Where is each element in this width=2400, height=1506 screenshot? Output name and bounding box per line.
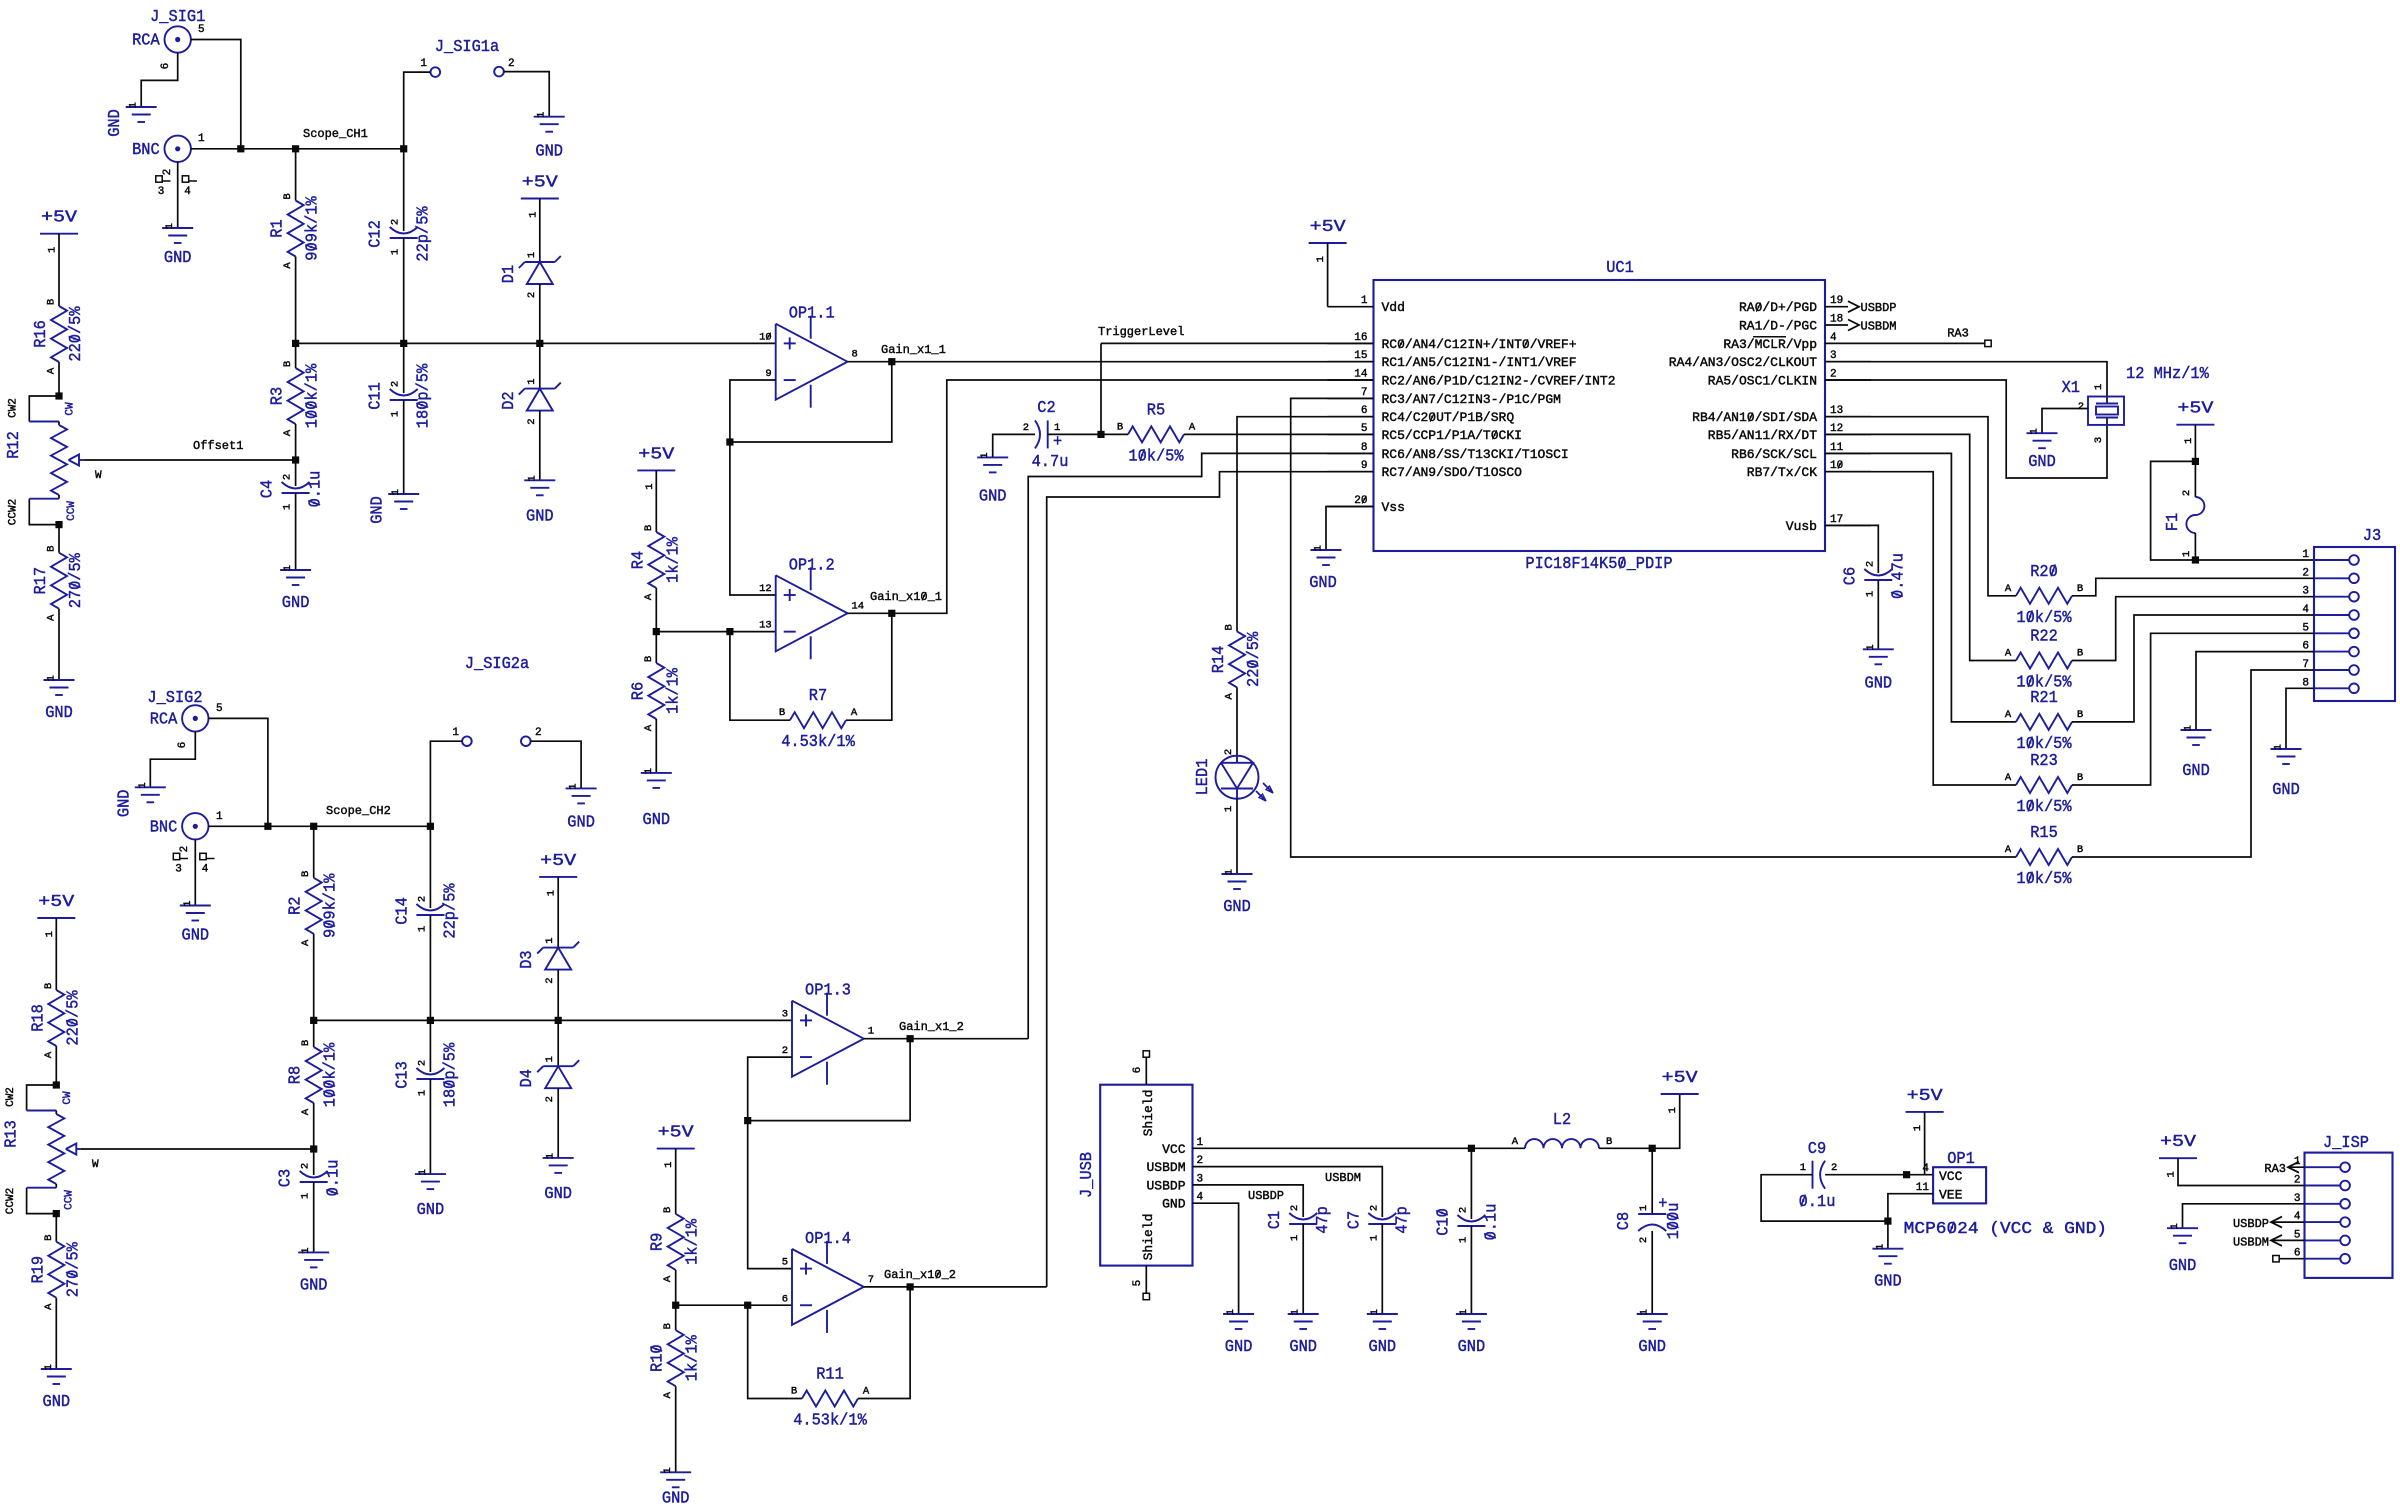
svg-text:R5: R5 (1147, 401, 1165, 420)
svg-text:A: A (662, 1275, 674, 1282)
wire J_SIG1a pin2 to GND (504, 72, 549, 117)
wire RB6 to R21 (1825, 453, 2016, 722)
svg-text:RC0/AN4/C12IN+/INT0/VREF+: RC0/AN4/C12IN+/INT0/VREF+ (1382, 337, 1577, 352)
junction node R4/R6 (653, 628, 660, 635)
wire C13 bottom stub (429, 1079, 431, 1174)
wire OP1.1 output (848, 361, 892, 363)
wire BNC1 pin1 (191, 148, 241, 150)
svg-text:1: 1 (1458, 1309, 1470, 1315)
ground LED1 (1222, 869, 1253, 917)
svg-text:CW2: CW2 (5, 1087, 17, 1107)
svg-text:B: B (282, 361, 294, 367)
svg-text:+: + (1053, 433, 1062, 452)
ground RCA2 (115, 782, 166, 817)
svg-text:CW: CW (65, 402, 77, 416)
pin 5 label (216, 703, 223, 715)
svg-text:C4: C4 (259, 480, 278, 498)
svg-text:5: 5 (198, 24, 205, 36)
svg-text:+5V: +5V (1662, 1069, 1699, 1088)
junction node VCC OP1 (1903, 1171, 1910, 1178)
wire CH1 divider node row (296, 342, 776, 344)
svg-text:R1: R1 (269, 219, 288, 237)
svg-text:1: 1 (1912, 1125, 1924, 1131)
svg-text:A: A (282, 262, 294, 269)
junction node C10 (1468, 1145, 1475, 1152)
svg-text:1: 1 (2029, 428, 2041, 434)
+5V supply R16 (40, 209, 78, 253)
svg-text:1k/1%: 1k/1% (684, 1218, 703, 1265)
svg-text:Offset1: Offset1 (193, 439, 243, 453)
svg-text:2: 2 (1864, 561, 1876, 567)
wire R1 top stub (295, 149, 297, 201)
svg-text:+5V: +5V (658, 1124, 695, 1143)
svg-text:GND: GND (979, 487, 1007, 506)
wire C10 top (1470, 1148, 1472, 1219)
wire C4 bottom stub (295, 493, 297, 570)
svg-text:1: 1 (526, 475, 538, 481)
svg-text:GND: GND (182, 927, 210, 946)
junction node CCW ch2 (53, 1210, 60, 1217)
wire OP1.1 feedback (730, 362, 892, 442)
potentiometer R13 (2, 1111, 99, 1188)
wire F1 bypass (2151, 461, 2314, 560)
svg-text:2: 2 (1023, 422, 1029, 434)
junction node C14/C13 (427, 1017, 434, 1024)
resistor R3 (269, 361, 323, 436)
capacitor C11 (367, 363, 434, 428)
svg-text:A: A (643, 724, 655, 731)
junction Scope_CH1 at J_SIG1a (400, 145, 407, 152)
svg-text:2: 2 (282, 474, 294, 480)
wire R19 bottom stub (55, 1298, 57, 1369)
svg-text:A: A (1224, 693, 1236, 700)
svg-text:2: 2 (416, 896, 428, 902)
junction node CW ch2 (53, 1081, 60, 1088)
junction node C12/C11 (400, 340, 407, 347)
wire RB7 to R23 (1825, 472, 2016, 785)
inductor L2 (1471, 1111, 1612, 1148)
svg-text:1: 1 (544, 937, 556, 943)
wire C12 bottom stub (403, 238, 405, 343)
net label USBDM (1325, 1171, 1361, 1185)
label J_SIG2 (147, 689, 202, 708)
svg-text:R14: R14 (1210, 646, 1229, 674)
svg-text:2: 2 (544, 1096, 556, 1102)
svg-text:22p/5%: 22p/5% (415, 206, 434, 262)
wire LED1 to GND (1236, 799, 1238, 874)
svg-text:B: B (1224, 624, 1236, 630)
svg-text:R22: R22 (2030, 628, 2058, 647)
svg-text:1: 1 (1197, 1137, 1204, 1149)
wire VCC to L2 (1239, 1147, 1472, 1149)
svg-text:270/5%: 270/5% (64, 1241, 83, 1297)
ground OP1 (1872, 1244, 1903, 1292)
wire R9 top stub (675, 1149, 677, 1214)
pin 2 label (535, 727, 542, 739)
svg-text:11: 11 (1830, 442, 1844, 454)
BNC1 pin 4 stub (182, 176, 197, 198)
capacitor C2 (1023, 399, 1069, 472)
resistor R6 (629, 656, 683, 731)
svg-text:CW2: CW2 (8, 398, 20, 418)
wire RCA1 pin6 to GND (141, 53, 178, 107)
svg-text:11: 11 (1916, 1182, 1930, 1194)
wire RC4 to R14 (1237, 417, 1374, 632)
jumper CW2 box ch2 (5, 1085, 74, 1111)
svg-text:1: 1 (1874, 1244, 1886, 1250)
wire Offset1 net (83, 459, 295, 461)
op-amp OP1.4 (782, 1230, 874, 1333)
wire R3 top stub (295, 343, 297, 368)
wire OP1.3 feedback (748, 1039, 910, 1121)
svg-text:Gain_x1_2: Gain_x1_2 (899, 1020, 964, 1034)
svg-text:B: B (791, 1386, 797, 1398)
svg-text:W: W (92, 1159, 99, 1171)
wire R18 top stub (55, 918, 57, 990)
svg-text:2: 2 (526, 292, 538, 298)
svg-text:1: 1 (2273, 744, 2285, 750)
junction node F1 top (2192, 458, 2199, 465)
wire D2 top stub (539, 343, 541, 388)
wire R3 bottom stub (295, 424, 297, 460)
svg-text:RA1/D-/PGC: RA1/D-/PGC (1739, 319, 1817, 334)
junction node Offset1 (292, 456, 299, 463)
wire R1 bottom stub (295, 257, 297, 344)
svg-text:4: 4 (1922, 1163, 1929, 1175)
capacitor C8 (1615, 1195, 1684, 1243)
svg-text:RA3: RA3 (1947, 327, 1969, 341)
wire C11 top stub (403, 343, 405, 393)
svg-text:4: 4 (202, 864, 209, 876)
svg-text:GND: GND (1225, 1338, 1253, 1357)
svg-text:12: 12 (1830, 423, 1843, 435)
wire J_ISP pin3 GND (2183, 1204, 2305, 1228)
svg-text:J_SIG2a: J_SIG2a (465, 655, 529, 674)
svg-text:GND: GND (1289, 1338, 1317, 1357)
svg-text:GND: GND (2272, 781, 2300, 800)
svg-text:4.7u: 4.7u (1032, 453, 1069, 472)
wire D1 bottom stub (539, 284, 541, 343)
svg-text:A: A (300, 1108, 312, 1115)
svg-text:J_SIG1a: J_SIG1a (435, 38, 499, 57)
svg-text:C14: C14 (393, 897, 412, 925)
junction node OP1.1 fb (726, 438, 733, 445)
svg-text:4: 4 (1197, 1192, 1204, 1204)
junction node VEE GND (1884, 1218, 1891, 1225)
wire TriggerLevel down (1100, 343, 1102, 434)
svg-text:2: 2 (162, 169, 174, 176)
svg-text:RB5/AN11/RX/DT: RB5/AN11/RX/DT (1708, 428, 1817, 443)
wire D4 bottom stub (557, 1088, 559, 1158)
svg-text:OP1: OP1 (1947, 1150, 1975, 1169)
svg-text:1: 1 (390, 411, 402, 417)
resistor R16 (32, 299, 86, 374)
wire C2 pin1 stub (1048, 433, 1101, 435)
svg-text:1: 1 (1315, 256, 1327, 262)
junction node TriggerLevel (1097, 431, 1104, 438)
label MCP6024 (1904, 1220, 2107, 1239)
net label Gain_x10_1 (870, 590, 942, 604)
svg-text:CCW2: CCW2 (5, 1188, 17, 1214)
svg-text:1: 1 (526, 378, 538, 384)
connector J_SIG1a pin2 (494, 67, 504, 77)
svg-text:R8: R8 (287, 1066, 306, 1084)
svg-text:2: 2 (535, 727, 542, 739)
svg-text:5: 5 (1361, 423, 1368, 435)
junction node D1/D2 (536, 340, 543, 347)
svg-text:14: 14 (1354, 369, 1368, 381)
svg-text:R20: R20 (2030, 563, 2058, 582)
svg-text:R16: R16 (32, 320, 51, 348)
svg-text:CCW: CCW (63, 1190, 75, 1210)
wire J3 pin6 to GND (2196, 652, 2314, 730)
ground D4 (543, 1153, 574, 1204)
+5V supply D3 (539, 852, 577, 896)
svg-text:1: 1 (1800, 1162, 1806, 1174)
svg-text:1: 1 (46, 675, 58, 681)
svg-text:GND: GND (369, 496, 388, 524)
svg-text:1: 1 (2181, 551, 2193, 557)
svg-text:2: 2 (1457, 1207, 1469, 1213)
svg-text:2: 2 (1638, 1237, 1650, 1243)
svg-text:1: 1 (2183, 725, 2195, 731)
svg-text:1: 1 (390, 489, 402, 495)
svg-text:1: 1 (536, 112, 548, 118)
svg-text:47p: 47p (1314, 1206, 1333, 1234)
resistor R5 (1117, 401, 1196, 466)
wire USBDP net (1239, 1185, 1304, 1217)
capacitor C10 (1434, 1204, 1501, 1244)
ground J_USB (1223, 1309, 1254, 1357)
wire R14 to LED1 (1236, 687, 1238, 755)
svg-text:2: 2 (416, 1060, 428, 1066)
net label Scope_CH1 (303, 127, 368, 141)
jumper CCW2 box (8, 499, 79, 526)
wire C3 top stub (313, 1149, 315, 1175)
svg-text:15: 15 (1354, 350, 1367, 362)
svg-text:LED1: LED1 (1194, 759, 1213, 796)
wire R8 top stub (313, 1020, 315, 1047)
svg-text:12 MHz/1%: 12 MHz/1% (2126, 365, 2210, 384)
wire Gain_x1_2 up (910, 1038, 1028, 1040)
svg-text:RC7/AN9/SDO/T1OSCO: RC7/AN9/SDO/T1OSCO (1382, 465, 1523, 480)
crystal X1 (2062, 365, 2210, 443)
svg-text:C9: C9 (1808, 1140, 1826, 1159)
svg-text:17: 17 (1830, 514, 1843, 526)
junction node F1 bottom (2192, 556, 2199, 563)
svg-text:1: 1 (47, 247, 59, 253)
connector J_SIG1 RCA jack (132, 26, 191, 52)
wire Scope_CH2 net (268, 825, 431, 827)
svg-text:+5V: +5V (38, 893, 75, 912)
svg-text:RB6/SCK/SCL: RB6/SCK/SCL (1731, 447, 1817, 462)
wire C12 top stub (403, 149, 405, 231)
svg-text:14: 14 (852, 600, 865, 612)
svg-text:B: B (46, 546, 58, 552)
connector J_SIG2a pin2 (521, 736, 531, 746)
wire J_SIG2a pin1 (430, 741, 462, 826)
wire R2 bottom stub (313, 934, 315, 1021)
junction node C8 (1649, 1145, 1656, 1152)
svg-text:D3: D3 (518, 950, 537, 968)
svg-text:A: A (2005, 583, 2012, 595)
wire Gain_x1_1 to RC1 (892, 361, 1374, 363)
wire C2 pin2 to GND (993, 434, 1035, 457)
op-amp OP1.1 (759, 305, 858, 408)
svg-text:B: B (2077, 772, 2083, 784)
ground C4 (280, 565, 311, 613)
svg-text:6: 6 (782, 1293, 788, 1305)
svg-text:100k/1%: 100k/1% (304, 363, 323, 428)
connector J_SIG2a pin1 (462, 736, 472, 746)
svg-text:C1: C1 (1266, 1211, 1285, 1229)
svg-text:1: 1 (300, 1193, 312, 1199)
svg-text:RCA: RCA (150, 710, 178, 729)
wire CH2 divider node row (314, 1019, 792, 1021)
svg-text:GND: GND (164, 249, 192, 268)
wire C14 top stub (429, 826, 431, 908)
IC UC1 PIC18F14K50 (1328, 259, 1872, 574)
svg-text:A: A (2005, 648, 2012, 660)
svg-text:GND: GND (300, 1276, 328, 1295)
wire RC7 to Gain_x10_2 (1047, 472, 1374, 1287)
svg-text:GND: GND (662, 1489, 690, 1506)
svg-text:1: 1 (198, 133, 205, 145)
junction node D3/D4 (555, 1017, 562, 1024)
svg-text:Shield: Shield (1141, 1090, 1156, 1137)
connector BNC1 jack (132, 136, 191, 162)
svg-text:D1: D1 (500, 265, 519, 283)
ground C3 (298, 1247, 329, 1295)
ground R10 (660, 1467, 691, 1506)
svg-text:2: 2 (526, 418, 538, 424)
svg-text:2: 2 (2181, 490, 2193, 496)
resistor R7 (779, 687, 858, 752)
svg-text:B: B (300, 871, 312, 877)
label J_SIG2a (465, 655, 529, 674)
svg-text:RCA: RCA (132, 32, 160, 51)
svg-text:1: 1 (1054, 422, 1060, 434)
wire OP1.2 output (848, 612, 892, 614)
svg-text:A: A (2005, 709, 2012, 721)
svg-text:C10: C10 (1434, 1208, 1453, 1236)
wire Vusb wire (1825, 525, 1878, 573)
ground C8 (1637, 1309, 1668, 1357)
svg-text:1: 1 (662, 1467, 674, 1473)
svg-text:1: 1 (1224, 869, 1236, 875)
svg-text:3: 3 (782, 1008, 788, 1020)
svg-text:USBDM: USBDM (1146, 1160, 1185, 1175)
ground R17 (44, 675, 75, 723)
svg-text:3: 3 (158, 186, 165, 198)
wire F1 top (2194, 425, 2196, 462)
svg-text:OP1.4: OP1.4 (805, 1230, 851, 1249)
svg-text:1: 1 (416, 926, 428, 932)
svg-text:9: 9 (765, 368, 771, 380)
svg-text:USBDM: USBDM (1325, 1171, 1361, 1185)
pin 2 label (508, 58, 515, 70)
svg-text:8: 8 (852, 349, 858, 361)
svg-text:B: B (2077, 844, 2083, 856)
wire C9 pin2 to VCC (1825, 1174, 1933, 1176)
wire R21 to J3 pin4 (2072, 615, 2314, 722)
svg-text:1: 1 (452, 727, 459, 739)
ground C11 (369, 489, 420, 524)
svg-text:2: 2 (300, 1163, 312, 1169)
resistor R11 (791, 1366, 870, 1431)
svg-text:B: B (2077, 648, 2083, 660)
wire J_ISP pin2 +5V (2178, 1158, 2305, 1185)
wire OP1 VCC riser (1924, 1112, 1926, 1175)
svg-text:GND: GND (1458, 1338, 1486, 1357)
svg-text:4.53k/1%: 4.53k/1% (781, 733, 855, 752)
svg-text:1: 1 (544, 1056, 556, 1062)
wire R18 bottom stub (55, 1046, 57, 1085)
ground C10 (1456, 1309, 1487, 1357)
svg-text:C3: C3 (277, 1169, 296, 1187)
net ref USBDP ISP (2233, 1217, 2305, 1231)
svg-text:16: 16 (1354, 332, 1367, 344)
wire OP1.2 feedback down (846, 613, 892, 720)
svg-text:B: B (662, 1323, 674, 1329)
svg-text:2: 2 (390, 381, 402, 387)
svg-text:R7: R7 (809, 687, 827, 706)
svg-text:1: 1 (568, 783, 580, 789)
wire R11 to minus (748, 1305, 802, 1398)
svg-text:1: 1 (1289, 1235, 1301, 1241)
net ref USBDM ISP (2233, 1235, 2305, 1249)
junction Scope_CH2 at J_SIG2a (427, 823, 434, 830)
svg-text:R17: R17 (32, 567, 51, 595)
+5V supply R9 (657, 1124, 695, 1168)
svg-text:R13: R13 (2, 1120, 21, 1148)
svg-text:A: A (2005, 772, 2012, 784)
svg-text:+5V: +5V (522, 174, 559, 193)
svg-text:B: B (643, 525, 655, 531)
wire OSC1 to X1 pin3 (1825, 380, 2107, 478)
resistor R21 (2005, 689, 2083, 754)
zener diode D3 (518, 937, 579, 983)
svg-text:220/5%: 220/5% (64, 990, 83, 1046)
wire +5V riser (1652, 1094, 1680, 1148)
svg-text:3: 3 (175, 864, 182, 876)
svg-text:RC3/AN7/C12IN3-/P1C/PGM: RC3/AN7/C12IN3-/P1C/PGM (1382, 392, 1561, 407)
svg-text:180p/5%: 180p/5% (441, 1042, 460, 1107)
svg-text:47p: 47p (1393, 1206, 1412, 1234)
wire R16 bottom stub (58, 362, 60, 396)
svg-text:1: 1 (1667, 1107, 1679, 1113)
svg-text:B: B (43, 1235, 55, 1241)
svg-text:GND: GND (106, 109, 125, 137)
svg-text:R10: R10 (649, 1344, 668, 1372)
svg-text:USBDP: USBDP (1146, 1178, 1185, 1193)
svg-text:USBDP: USBDP (2233, 1217, 2269, 1231)
connector BNC2 jack (150, 813, 209, 839)
svg-text:5: 5 (1132, 1280, 1144, 1287)
jumper CW2 box (8, 396, 77, 422)
wire D1 top stub (539, 199, 541, 263)
svg-text:1: 1 (164, 223, 176, 229)
svg-text:1: 1 (527, 212, 539, 218)
wire RC6 to Gain_x1_2 (1028, 453, 1373, 1038)
svg-text:B: B (46, 299, 58, 305)
svg-text:OP1.1: OP1.1 (789, 305, 835, 324)
wire fb to OP1.2 plus (730, 442, 776, 595)
svg-text:+5V: +5V (540, 852, 577, 871)
svg-text:4: 4 (184, 186, 191, 198)
svg-text:909k/1%: 909k/1% (304, 196, 323, 261)
pin 1 label (420, 58, 427, 70)
